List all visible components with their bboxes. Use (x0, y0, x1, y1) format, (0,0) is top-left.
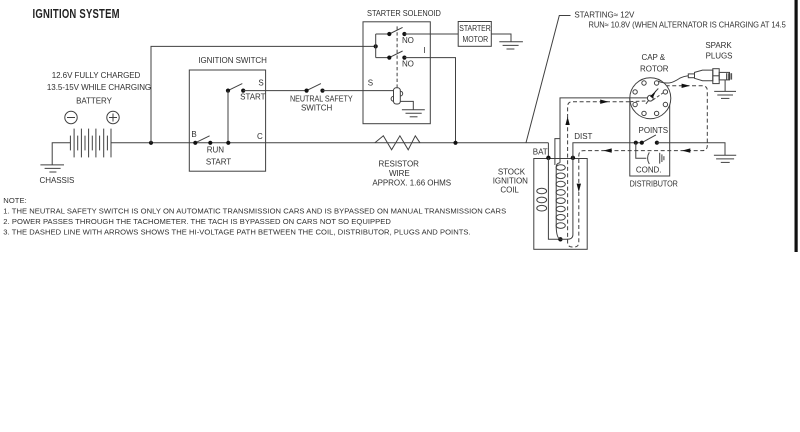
ground solenoid coil (402, 110, 425, 117)
annotation leader line (voltage callout) (526, 16, 571, 143)
resistor wire R1 (375, 136, 420, 150)
svg-text:BATTERY: BATTERY (76, 96, 113, 105)
solenoid contact lower NO (387, 51, 406, 60)
dashed path into cap center (630, 100, 647, 103)
svg-text:RUN: RUN (207, 146, 224, 155)
resistor label (372, 159, 451, 187)
svg-text:ROTOR: ROTOR (640, 64, 669, 73)
cap and rotor label (640, 53, 669, 73)
node coil DIST terminal (571, 156, 575, 160)
distributor box (630, 98, 670, 176)
wire starter motor to ground (491, 34, 511, 42)
page scan border (795, 0, 798, 252)
wire solenoid I terminal down to resistor line (404, 58, 455, 143)
ignition switch run contact (lower) (193, 136, 230, 145)
svg-text:3. THE DASHED LINE WITH ARROWS: 3. THE DASHED LINE WITH ARROWS SHOWS THE… (3, 227, 470, 236)
svg-text:NO: NO (402, 36, 414, 45)
wire DIST terminal internal to common (560, 158, 573, 240)
wire coil HV into cap center (630, 97, 648, 99)
ignition switch start contact (upper) (226, 84, 245, 93)
label S solenoid (368, 78, 373, 87)
arrow right (cap to plug) (682, 84, 690, 88)
condenser C1 (636, 143, 664, 164)
wire coil primary feed (548, 158, 560, 240)
label NO lower (402, 59, 414, 68)
svg-text:S: S (258, 78, 263, 87)
svg-text:STARTER: STARTER (459, 23, 491, 33)
stock ignition coil label (493, 168, 528, 195)
svg-text:SPARK: SPARK (705, 41, 732, 50)
condenser label (636, 165, 662, 174)
cap terminal towers (633, 81, 668, 116)
label BAT terminal (533, 148, 548, 157)
wire spark plug to ground (724, 80, 726, 92)
wire solenoid coil to ground (400, 101, 413, 109)
battery minus terminal (65, 111, 77, 123)
ground points (714, 155, 736, 162)
ignition switch box (189, 70, 265, 171)
rotor (646, 89, 658, 104)
wire main feed drop to coil BAT (547, 143, 549, 158)
wire points to ground (657, 143, 725, 156)
svg-text:PLUGS: PLUGS (706, 52, 733, 61)
arrow left (into distributor) (603, 148, 611, 152)
wire neutral safety switch to solenoid S (323, 90, 394, 92)
distributor label (630, 179, 679, 188)
arrow right (to cap) (600, 100, 608, 104)
label DIST terminal (574, 132, 592, 141)
battery voltage annotation (47, 71, 151, 92)
svg-text:MOTOR: MOTOR (463, 34, 489, 44)
starter solenoid label (367, 9, 441, 18)
svg-text:APPROX. 1.66 OHMS: APPROX. 1.66 OHMS (372, 178, 451, 187)
battery BT1 plates (70, 129, 111, 158)
wire DIST terminal to points (573, 143, 642, 158)
label S terminal (258, 78, 263, 87)
svg-text:NOTE:: NOTE: (3, 196, 26, 205)
battery label (76, 96, 113, 105)
starter solenoid box (363, 22, 430, 124)
svg-text:IGNITION: IGNITION (493, 177, 528, 186)
svg-text:START: START (206, 157, 231, 166)
ground starter motor (499, 42, 523, 49)
arrow down (to coil return) (577, 184, 581, 192)
spark plug P1 (688, 69, 731, 84)
wire coil HV to distributor cap (556, 98, 647, 167)
svg-text:2. POWER PASSES THROUGH THE TA: 2. POWER PASSES THROUGH THE TACHOMETER. … (3, 217, 391, 226)
label I terminal (423, 46, 425, 55)
label RUN (207, 146, 224, 155)
label START lower (206, 157, 231, 166)
node coil BAT terminal (546, 156, 550, 160)
svg-text:START: START (240, 92, 265, 101)
solenoid pull-in coil (391, 88, 403, 104)
label C terminal (257, 132, 263, 141)
label START upper (240, 92, 265, 101)
svg-text:13.5-15V WHILE CHARGING: 13.5-15V WHILE CHARGING (47, 83, 151, 92)
label B terminal (191, 130, 196, 139)
svg-text:CAP &: CAP & (641, 53, 665, 62)
arrow left (plug to points) (682, 148, 690, 152)
ground spark plug (714, 91, 736, 98)
points label (639, 126, 668, 135)
svg-text:DISTRIBUTOR: DISTRIBUTOR (630, 179, 679, 188)
points contact assembly (634, 135, 659, 145)
node coil common junction (558, 237, 562, 241)
svg-text:I: I (423, 46, 425, 55)
node solenoid feed junction (374, 44, 378, 48)
svg-text:CHASSIS: CHASSIS (40, 176, 75, 185)
svg-text:DIST: DIST (574, 132, 592, 141)
solenoid contact upper NO (387, 27, 406, 36)
svg-text:IGNITION SWITCH: IGNITION SWITCH (198, 56, 267, 65)
voltage annotation text (574, 10, 785, 29)
svg-text:RESISTOR: RESISTOR (379, 159, 420, 168)
svg-text:COND.: COND. (636, 165, 662, 174)
solenoid plunger dashed link (396, 26, 398, 87)
svg-text:COIL: COIL (500, 185, 519, 194)
svg-text:S: S (368, 78, 373, 87)
node I wire junction on main feed (453, 141, 457, 145)
svg-text:B: B (191, 130, 196, 139)
svg-text:12.6V FULLY CHARGED: 12.6V FULLY CHARGED (52, 71, 141, 80)
svg-text:C: C (257, 132, 263, 141)
neutral safety switch SW1 (305, 84, 325, 93)
svg-text:SWITCH: SWITCH (301, 103, 333, 112)
coil primary winding L1 (537, 188, 547, 211)
neutral safety switch label (290, 94, 353, 112)
dashed path rotor to terminal (653, 93, 664, 100)
svg-text:1. THE NEUTRAL SAFETY SWITCH I: 1. THE NEUTRAL SAFETY SWITCH IS ONLY ON … (3, 207, 506, 216)
svg-text:STARTING≈ 12V: STARTING≈ 12V (574, 10, 635, 19)
starter motor box (458, 22, 491, 47)
coil HV tower chimney (555, 139, 560, 165)
distributor cap circle (630, 78, 671, 119)
spark plugs label (705, 41, 732, 61)
wire ignition internal riser (227, 91, 229, 143)
hi-voltage dashed path (568, 86, 708, 247)
wire ignition S terminal to box edge (243, 90, 306, 92)
svg-text:BAT: BAT (533, 148, 548, 157)
svg-text:IGNITION SYSTEM: IGNITION SYSTEM (33, 8, 120, 22)
notes (3, 196, 506, 237)
node battery feed riser junction (149, 141, 153, 145)
ignition switch label (198, 56, 267, 65)
coil box (534, 159, 587, 250)
starter motor label (459, 23, 491, 44)
svg-text:NO: NO (402, 59, 414, 68)
wire solenoid feed to contacts (376, 34, 390, 58)
wire battery to chassis (52, 143, 70, 165)
coil secondary winding L2 (556, 165, 565, 240)
wire solenoid NO to starter motor (404, 33, 458, 35)
svg-text:WIRE: WIRE (389, 169, 410, 178)
chassis label (40, 176, 75, 185)
chassis ground symbol (40, 165, 64, 172)
battery plus terminal (107, 111, 119, 123)
svg-text:STARTER SOLENOID: STARTER SOLENOID (367, 9, 441, 18)
svg-text:POINTS: POINTS (639, 126, 668, 135)
wire riser to starter solenoid (151, 46, 376, 142)
arrow up (coil to cap) (565, 117, 569, 125)
title IGNITION SYSTEM (33, 8, 120, 22)
svg-text:STOCK: STOCK (498, 168, 526, 177)
svg-text:RUN≈ 10.8V (WHEN ALTERNATOR IS: RUN≈ 10.8V (WHEN ALTERNATOR IS CHARGING … (589, 20, 786, 29)
label NO upper (402, 36, 414, 45)
wire cap to spark plug (658, 76, 688, 83)
wire battery to ignition switch (main feed) (111, 142, 548, 144)
svg-text:NEUTRAL SAFETY: NEUTRAL SAFETY (290, 94, 353, 103)
